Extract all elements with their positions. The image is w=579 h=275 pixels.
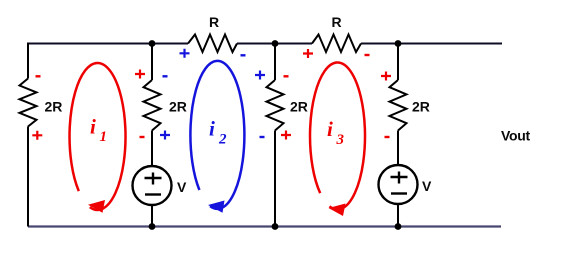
resistor R2 — [312, 35, 361, 53]
wire top rail right segment — [361, 43, 502, 45]
wire top rail middle segment — [237, 43, 312, 45]
svg-text:2: 2 — [218, 132, 227, 148]
polarity minus (blue) right of R1 — [241, 54, 246, 56]
mesh current loop i1 arc — [70, 63, 126, 210]
voltage source V2 minus — [391, 192, 407, 194]
wire branch4 bottom — [397, 204, 399, 227]
node bottom of branch4 — [395, 223, 402, 230]
voltage source V1 circle — [133, 166, 172, 205]
svg-text:1: 1 — [100, 129, 108, 145]
wire branch1 top — [27, 43, 29, 79]
polarity plus (blue) branch2 bottom-right — [160, 131, 170, 140]
wire branch2 middle — [151, 131, 153, 166]
polarity plus (red) branch4 top — [381, 72, 391, 81]
polarity plus (blue) left of R1 — [180, 49, 190, 58]
wire branch2 top — [151, 43, 153, 81]
polarity minus (red) right of R2 — [365, 54, 370, 56]
node top of branch2 — [149, 40, 156, 47]
voltage source V1 plus — [145, 173, 162, 185]
resistor 2R branch2 — [144, 80, 161, 131]
svg-text:R: R — [331, 14, 341, 30]
polarity plus (blue) branch3 top-left — [255, 71, 265, 80]
wire branch4 top — [397, 43, 399, 81]
svg-text:2R: 2R — [412, 99, 430, 115]
svg-text:V: V — [422, 178, 432, 194]
wire top rail left segment — [28, 43, 188, 45]
node top of branch4 — [395, 40, 402, 47]
mesh current loop i3 arrowhead — [329, 204, 346, 217]
wire branch3 bottom — [274, 131, 276, 227]
svg-text:2R: 2R — [45, 99, 63, 115]
svg-text:i: i — [327, 117, 333, 141]
wire branch2 bottom — [151, 205, 153, 227]
svg-text:V: V — [177, 179, 187, 195]
mesh current loop i1 arrowhead — [88, 200, 105, 213]
resistor R1 — [188, 35, 237, 53]
voltage source V2 plus — [391, 172, 408, 184]
polarity plus (red) branch3 bottom-right — [281, 131, 291, 140]
wire branch4 middle — [397, 131, 399, 166]
polarity minus (blue) branch3 bottom-left — [260, 136, 265, 138]
svg-text:i: i — [209, 117, 215, 141]
svg-text:2R: 2R — [169, 99, 187, 115]
svg-text:Vout: Vout — [501, 128, 531, 144]
bottom rail (ground return) — [28, 225, 501, 227]
svg-text:3: 3 — [336, 132, 345, 148]
wire branch3 top — [274, 43, 276, 81]
polarity plus (red) left of R2 — [303, 49, 313, 58]
node top of branch3 — [272, 40, 279, 47]
mesh current loop i2 arc — [190, 61, 244, 209]
node bottom of branch3 — [272, 223, 279, 230]
polarity minus (red) branch2 bottom-left — [140, 136, 145, 138]
wire branch1 bottom — [27, 127, 29, 227]
resistor 2R branch1 — [20, 79, 37, 127]
polarity minus (red) branch1 top — [36, 75, 41, 77]
voltage source V1 minus — [145, 193, 161, 195]
resistor 2R branch3 — [267, 80, 284, 131]
polarity plus (red) branch1 bottom — [32, 131, 42, 140]
polarity minus (red) branch3 top-right — [284, 75, 289, 77]
node bottom of branch2 — [149, 223, 156, 230]
resistor 2R branch4 — [390, 80, 407, 131]
voltage source V2 circle — [379, 165, 418, 204]
svg-text:R: R — [209, 14, 219, 30]
polarity minus (red) branch4 bottom — [385, 136, 390, 138]
svg-text:i: i — [90, 115, 96, 139]
polarity minus (blue) branch2 top-right — [163, 75, 168, 77]
svg-text:2R: 2R — [290, 99, 308, 115]
polarity plus (red) branch2 top-left — [135, 70, 145, 79]
mesh current loop i2 arrowhead — [208, 201, 225, 213]
mesh current loop i3 arc — [310, 62, 365, 209]
